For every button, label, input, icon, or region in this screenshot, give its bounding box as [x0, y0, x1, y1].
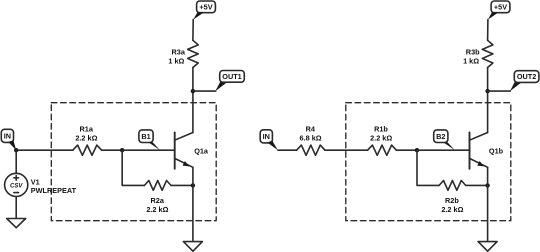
net label +5V (right) — [488, 1, 510, 20]
svg-text:6.8 kΩ: 6.8 kΩ — [300, 133, 322, 142]
svg-text:B2: B2 — [436, 132, 445, 141]
net label B2 — [434, 130, 455, 150]
resistor R3a 1 k — [168, 40, 198, 67]
resistor R2b 2.2 k — [439, 181, 466, 215]
wire V1 to ground — [15, 197, 17, 219]
wire IN node to R1a — [16, 149, 73, 151]
wire +5V to R3b — [487, 20, 489, 41]
node at OUT1 tap — [191, 89, 195, 93]
wire R3a to collector node — [192, 68, 194, 92]
svg-text:CSV: CSV — [10, 184, 23, 190]
svg-text:2.2 kΩ: 2.2 kΩ — [370, 133, 392, 142]
wire emitter node to ground — [192, 185, 194, 241]
net label OUT2 — [510, 71, 539, 92]
wire node to Q1a base — [122, 149, 175, 151]
svg-text:+5V: +5V — [199, 2, 212, 11]
resistor R3b 1 k — [463, 40, 493, 67]
wire node to OUT1 — [193, 90, 216, 92]
svg-text:R2b: R2b — [445, 196, 459, 205]
svg-text:R3b: R3b — [466, 47, 480, 56]
svg-text:R4: R4 — [306, 124, 316, 133]
wire R3b to collector node — [487, 68, 489, 92]
resistor R1a 2.2 k — [73, 124, 102, 155]
svg-text:B1: B1 — [141, 132, 150, 141]
node at base junction (right) — [415, 148, 419, 152]
wire +5V to R3a — [192, 20, 194, 41]
svg-text:1 kΩ: 1 kΩ — [168, 56, 184, 65]
svg-text:PWLREPEAT: PWLREPEAT — [31, 186, 77, 195]
voltage source V1 PWLREPEAT — [5, 173, 77, 196]
svg-text:OUT1: OUT1 — [222, 72, 241, 81]
svg-text:R1b: R1b — [374, 124, 388, 133]
wire node down to R2b — [417, 150, 439, 185]
node at emitter (right) — [485, 183, 489, 187]
wire node to OUT2 — [488, 90, 511, 92]
svg-text:+5V: +5V — [494, 2, 507, 11]
wire node down to V1 — [15, 150, 17, 173]
wire node to Q1b base — [417, 149, 470, 151]
wire collector up — [192, 91, 194, 132]
ground (V1) — [7, 219, 26, 228]
wire R2a to emitter node — [171, 184, 193, 186]
wire collector up (right) — [487, 91, 489, 132]
wire emitter to node (right) — [487, 167, 489, 185]
wire emitter node to ground (right) — [487, 185, 489, 241]
resistor R1b 2.2 k — [368, 124, 397, 155]
net label OUT1 — [215, 71, 244, 92]
transistor Q1a — [175, 132, 209, 168]
svg-text:Q1b: Q1b — [489, 146, 504, 155]
svg-text:IN: IN — [263, 132, 270, 141]
dashed subcircuit box (left) — [51, 103, 216, 221]
wire IN to R4 — [278, 149, 297, 151]
wire R4 to R1b — [325, 149, 368, 151]
svg-text:R3a: R3a — [172, 47, 186, 56]
net label +5V (left) — [193, 1, 215, 20]
wire R1b to node — [396, 149, 417, 151]
dashed subcircuit box (right) — [346, 103, 511, 221]
svg-text:IN: IN — [4, 131, 11, 140]
wire node down to R2a — [122, 150, 144, 185]
svg-text:2.2 kΩ: 2.2 kΩ — [146, 205, 168, 214]
wire R2b to emitter node — [466, 184, 488, 186]
ground (Q1b emitter) — [478, 242, 497, 252]
svg-text:R2a: R2a — [151, 196, 165, 205]
node at IN / V1 junction — [14, 148, 18, 152]
wire R1a to node — [102, 149, 123, 151]
node at base junction (left) — [120, 148, 124, 152]
svg-text:2.2 kΩ: 2.2 kΩ — [441, 205, 463, 214]
svg-text:OUT2: OUT2 — [517, 72, 536, 81]
wire emitter to node — [192, 167, 194, 185]
svg-text:R1a: R1a — [80, 124, 94, 133]
node at OUT2 tap — [485, 89, 489, 93]
svg-text:Q1a: Q1a — [194, 146, 209, 155]
resistor R4 6.8 k — [297, 124, 325, 155]
net label IN (left) — [1, 129, 16, 150]
node at emitter (left) — [191, 183, 195, 187]
ground (Q1a emitter) — [183, 242, 202, 252]
resistor R2a 2.2 k — [144, 181, 171, 214]
transistor Q1b — [470, 132, 504, 168]
net label B1 — [139, 130, 160, 150]
net label IN (right) — [260, 130, 278, 150]
svg-text:1 kΩ: 1 kΩ — [463, 56, 479, 65]
svg-text:2.2 kΩ: 2.2 kΩ — [75, 133, 97, 142]
